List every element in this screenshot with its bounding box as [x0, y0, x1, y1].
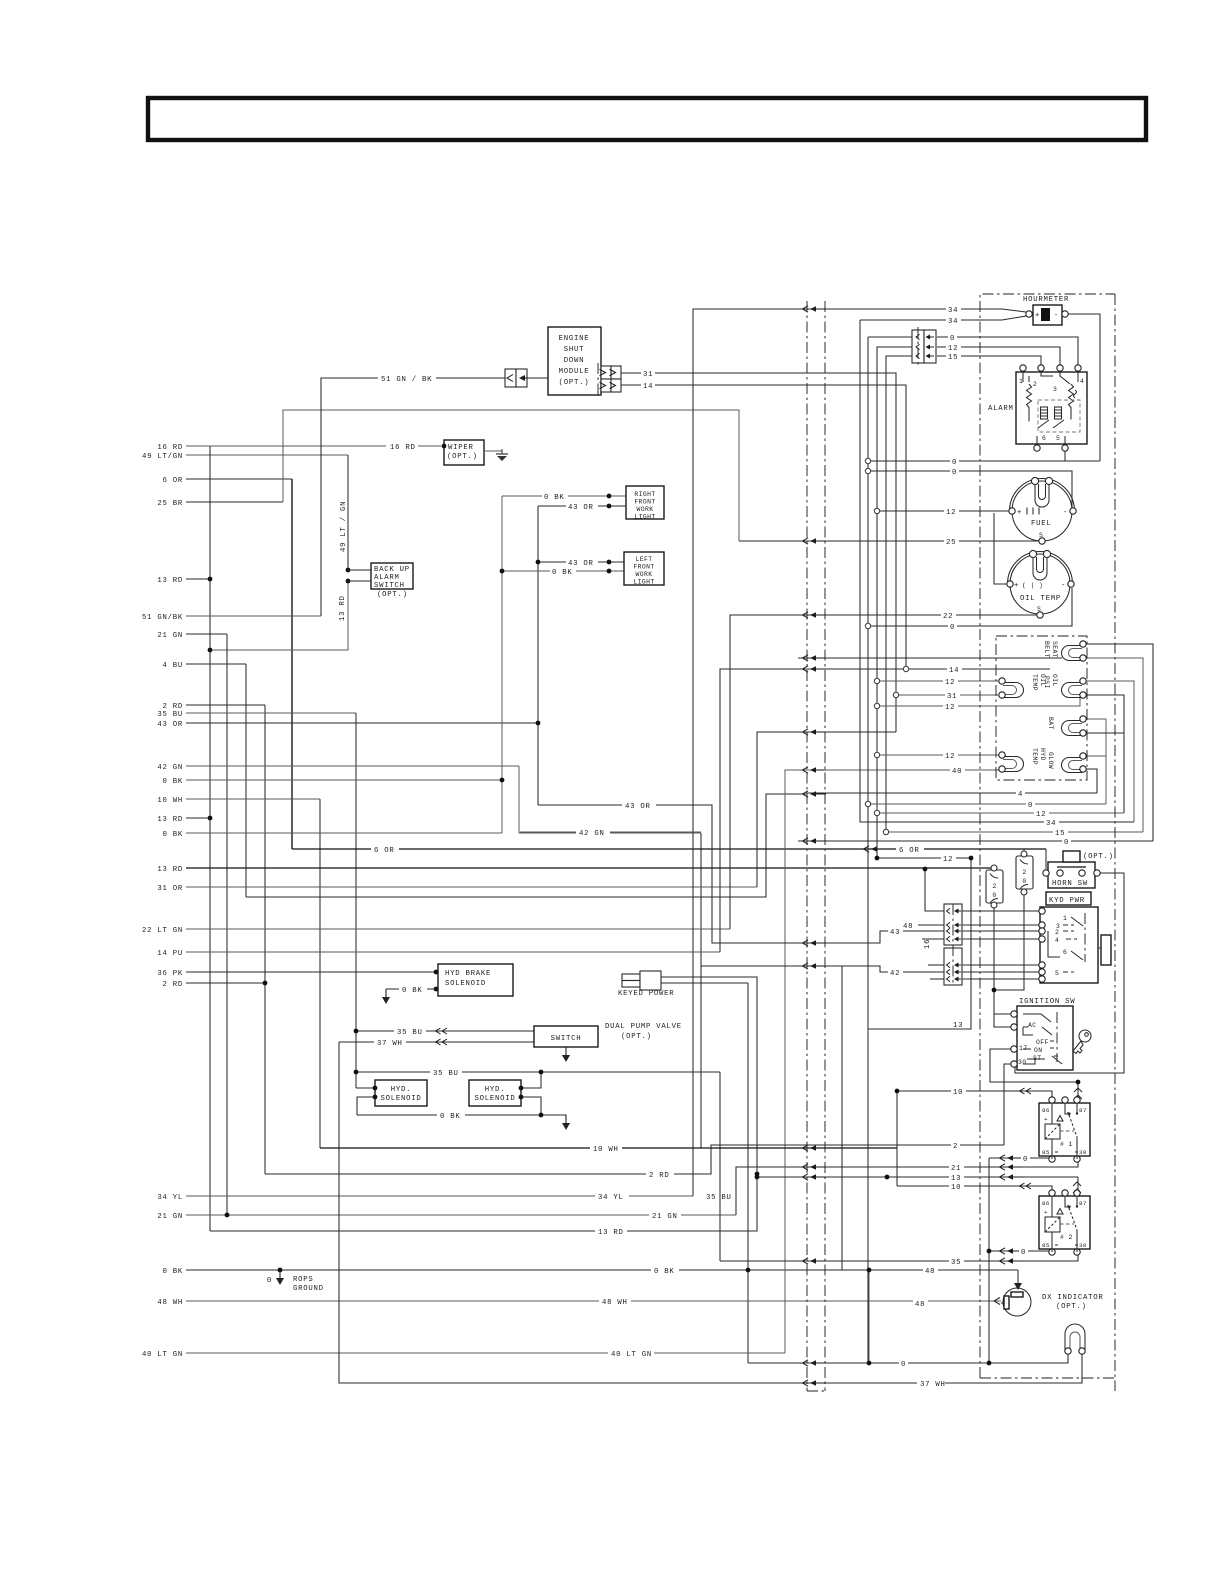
ignition switch — [1017, 1006, 1073, 1070]
svg-text:22: 22 — [943, 613, 953, 621]
wire 35 BU solenoid row — [356, 1030, 534, 1032]
svg-text:30: 30 — [1079, 1149, 1087, 1156]
wire 35 BU lower row — [356, 1071, 720, 1073]
svg-text:0 BK: 0 BK — [440, 1113, 461, 1121]
svg-text:42 GN: 42 GN — [579, 830, 605, 838]
svg-text:0: 0 — [267, 1277, 272, 1285]
hyd brake solenoid box — [438, 964, 513, 996]
wire 0 BK row 2 — [186, 832, 502, 834]
bat lamp — [1062, 721, 1083, 736]
svg-text:31: 31 — [643, 371, 653, 379]
open junction circles — [865, 458, 870, 463]
standalone arrows relay column — [1000, 1155, 1024, 1161]
svg-text:40 LT GN: 40 LT GN — [142, 1351, 183, 1359]
svg-text:0 BK: 0 BK — [162, 831, 183, 839]
svg-text:(OPT.): (OPT.) — [1056, 1303, 1087, 1311]
wire 13 relay row drop — [1077, 1177, 1079, 1193]
svg-text:34 YL: 34 YL — [157, 1194, 183, 1202]
svg-text:DOWN: DOWN — [564, 357, 585, 365]
svg-text:4 BU: 4 BU — [162, 662, 183, 670]
wire 42 jog right of bus — [830, 966, 944, 972]
svg-text:2: 2 — [1055, 929, 1059, 936]
svg-text:BAT: BAT — [1047, 717, 1054, 730]
seat belt lamp — [1062, 646, 1083, 661]
svg-text:48: 48 — [925, 1268, 935, 1276]
svg-text:0 BK: 0 BK — [162, 1268, 183, 1276]
svg-text:FRONT: FRONT — [633, 564, 654, 571]
svg-text:14: 14 — [643, 383, 653, 391]
fuel gauge — [1012, 481, 1072, 541]
wire hourmeter right to 0 — [1067, 314, 1100, 461]
svg-text:2 RD: 2 RD — [649, 1172, 670, 1180]
svg-text:ENGINE: ENGINE — [559, 335, 590, 343]
wire 34 YL center vertical — [693, 309, 830, 1196]
wire alarm pin5 drop — [1064, 447, 1066, 461]
wire 34 YL row — [186, 1195, 693, 1197]
module connector left — [505, 369, 516, 387]
svg-text:SOLENOID: SOLENOID — [445, 980, 486, 988]
wire 0 BK right light row — [502, 495, 626, 497]
wire 15 row to alarm pin2 — [937, 356, 1041, 368]
svg-text:30: 30 — [1079, 1242, 1087, 1249]
wire 22 riser — [730, 615, 1038, 929]
svg-text:KYD PWR: KYD PWR — [1049, 897, 1085, 905]
svg-text:35 BU: 35 BU — [706, 1194, 732, 1202]
svg-text:2 RD: 2 RD — [162, 981, 183, 989]
oil temp gauge — [1010, 554, 1070, 614]
svg-text:35: 35 — [951, 1259, 961, 1267]
right front work light box — [626, 486, 664, 519]
svg-text:+: + — [1017, 509, 1022, 517]
wire 0 relay1 row — [989, 1156, 1052, 1158]
wire 42 GN vertical center — [700, 833, 702, 1148]
svg-text:HYD.: HYD. — [485, 1086, 506, 1094]
svg-text:15: 15 — [948, 354, 958, 362]
svg-text:WORK: WORK — [636, 571, 653, 578]
svg-text:6: 6 — [1063, 949, 1067, 956]
svg-text:3: 3 — [1053, 386, 1057, 393]
wire 34 hourmeter rows — [830, 309, 1026, 312]
fuse 1 — [986, 870, 1003, 903]
svg-text:SWITCH: SWITCH — [374, 582, 405, 590]
horn switch — [1048, 862, 1095, 888]
wire 0 relay2 row — [989, 1250, 1052, 1252]
svg-text:WORK: WORK — [637, 506, 654, 513]
svg-text:13 RD: 13 RD — [157, 577, 183, 585]
svg-text:(OPT.): (OPT.) — [621, 1033, 652, 1041]
wire 0 stub row right — [798, 840, 1153, 842]
wire 0 row right — [868, 803, 1106, 805]
wire 43 OR mid row — [538, 805, 830, 943]
svg-text:ALARM: ALARM — [374, 574, 400, 582]
wire 21 jog — [736, 1167, 806, 1215]
wire 13 RD row upper — [186, 578, 210, 580]
svg-text:TEMP: TEMP — [1031, 674, 1038, 691]
svg-text:87: 87 — [1079, 1200, 1087, 1207]
wire 0 vertical right — [988, 1158, 990, 1363]
svg-text:36 PK: 36 PK — [157, 970, 183, 978]
hourmeter — [1033, 305, 1062, 325]
wire 6 OR long row — [292, 848, 1046, 850]
wire 48 WH row — [186, 1300, 1001, 1302]
left front work light box — [624, 552, 664, 585]
svg-text:(OPT.): (OPT.) — [377, 591, 408, 599]
svg-text:14 PU: 14 PU — [157, 950, 183, 958]
svg-text:12: 12 — [945, 704, 955, 712]
wire 42 row to bus — [701, 965, 830, 967]
wire solenoid links — [521, 1072, 541, 1088]
svg-text:31 OR: 31 OR — [157, 885, 183, 893]
wire 14 PU row — [186, 951, 720, 953]
dash frame right panel — [980, 294, 1115, 1378]
key switch connector — [944, 904, 962, 945]
wire 2 RD trunk — [264, 705, 266, 1174]
wire 0 bottom row — [748, 1351, 1068, 1363]
wire 42 GN mid row — [520, 831, 701, 833]
svg-text:12: 12 — [945, 679, 955, 687]
6 OR arrows right of bus — [864, 846, 888, 852]
wire 10 vertical — [896, 1091, 898, 1186]
wire ign 1014 — [994, 1013, 1013, 1015]
wire 13 row mid — [868, 858, 971, 1029]
svg-text:DX INDICATOR: DX INDICATOR — [1042, 1294, 1104, 1302]
wire 2 RD bottom row — [265, 1145, 1004, 1174]
svg-text:+: + — [1044, 1209, 1048, 1216]
glow wrap wires — [1083, 755, 1106, 757]
wire 2 RD row 2 — [186, 982, 265, 984]
wire 0 BK trunk — [501, 496, 503, 833]
wire 31 lamp row — [896, 694, 1002, 696]
svg-text:14: 14 — [949, 667, 959, 675]
wire 10 relay1 row — [897, 1091, 1052, 1100]
wire 12 row 3 — [877, 697, 1080, 706]
svg-text:HYD: HYD — [1039, 748, 1046, 761]
svg-text:FUEL: FUEL — [1031, 520, 1052, 528]
relay 2 — [1039, 1196, 1090, 1249]
keyed power connector — [622, 974, 640, 981]
wire 35 BU drop — [719, 1072, 721, 1261]
svg-text:HORN SW: HORN SW — [1052, 880, 1088, 888]
alarm internals — [1027, 384, 1032, 422]
svg-text:LIGHT: LIGHT — [634, 514, 655, 521]
svg-text:6 OR: 6 OR — [899, 847, 920, 855]
svg-text:0: 0 — [1023, 1156, 1028, 1164]
svg-text:51 GN / BK: 51 GN / BK — [381, 376, 432, 384]
svg-text:ON: ON — [1034, 1047, 1042, 1054]
svg-text:0 BK: 0 BK — [544, 494, 565, 502]
svg-text:OIL: OIL — [1051, 674, 1058, 687]
svg-text:12: 12 — [945, 753, 955, 761]
svg-text:LEFT: LEFT — [636, 556, 653, 563]
wire fuse2 stub — [1023, 849, 1025, 854]
oil psi lamp — [1062, 683, 1083, 698]
wire 37 WH bottom row — [339, 1042, 1082, 1383]
wire 10 relay2 row — [897, 1186, 1052, 1193]
wire 13 RD row 2 — [186, 817, 210, 819]
svg-text:48 WH: 48 WH — [157, 1299, 183, 1307]
svg-text:21 GN: 21 GN — [157, 632, 183, 640]
wire 48 dx drop — [1017, 1270, 1019, 1287]
svg-text:12: 12 — [943, 856, 953, 864]
svg-text:13: 13 — [953, 1022, 963, 1030]
connector bus dashed pair — [806, 301, 808, 1391]
wire 0 BK row 3 — [186, 1269, 1018, 1271]
wire 43 OR right light row — [538, 505, 626, 507]
svg-text:10 WH: 10 WH — [157, 797, 183, 805]
wire 35 BU trunk — [355, 713, 357, 1088]
svg-text:+: + — [1035, 312, 1040, 320]
svg-text:48 WH: 48 WH — [602, 1299, 628, 1307]
hyd temp lamp — [1003, 757, 1024, 772]
svg-text:34: 34 — [948, 318, 958, 326]
svg-text:S: S — [1039, 532, 1043, 539]
wire 42 GN riser — [519, 766, 701, 833]
svg-text:10: 10 — [953, 1089, 963, 1097]
wire 21 GN row 2 — [186, 1214, 736, 1216]
svg-text:+: + — [1044, 1116, 1048, 1123]
svg-text:42: 42 — [890, 970, 900, 978]
svg-text:( | ): ( | ) — [1022, 582, 1043, 589]
connector 0/12/15 top — [912, 330, 924, 363]
wire 49 LT/GN row — [186, 454, 348, 456]
wire 12 fuse row — [877, 857, 971, 859]
wire 25 riser — [283, 410, 739, 541]
svg-text:87: 87 — [1079, 1107, 1087, 1114]
wire 43 jog right of bus — [830, 931, 944, 943]
fuse 2 — [1016, 856, 1033, 889]
module connector right — [601, 366, 611, 379]
switch row chevrons — [436, 1028, 448, 1034]
svg-text:25 BR: 25 BR — [157, 500, 183, 508]
svg-text:37 WH: 37 WH — [377, 1040, 403, 1048]
wire 6 OR trunk vertical — [291, 479, 293, 849]
svg-text:2: 2 — [1033, 381, 1037, 388]
wire 31 drop — [654, 373, 896, 732]
svg-text:+: + — [1014, 582, 1019, 590]
bat wrap wires — [1083, 719, 1106, 804]
svg-text:40: 40 — [952, 768, 962, 776]
svg-text:4: 4 — [1018, 791, 1023, 799]
svg-text:MODULE: MODULE — [559, 368, 590, 376]
wire 31 OR row — [186, 886, 757, 888]
svg-text:10 WH: 10 WH — [593, 1146, 619, 1154]
svg-text:25: 25 — [946, 539, 956, 547]
svg-text:34: 34 — [948, 307, 958, 315]
svg-text:0: 0 — [952, 469, 957, 477]
wire 35 relay2 — [830, 1254, 1078, 1261]
wire 10 WH long row — [320, 1147, 897, 1149]
svg-text:FRONT: FRONT — [634, 499, 655, 506]
wire 13 RD link to backup switch — [210, 581, 348, 650]
svg-text:37 WH: 37 WH — [920, 1381, 946, 1389]
wire horn right — [1015, 873, 1124, 1073]
wire 35 BU row — [186, 712, 356, 714]
svg-text:43 OR: 43 OR — [568, 504, 594, 512]
svg-text:6: 6 — [1042, 435, 1046, 442]
wire 0 BK drop — [747, 983, 749, 1363]
wire 0 row hourmeter — [868, 460, 1100, 462]
junction dots — [208, 577, 213, 582]
wire 43 OR left light row — [538, 561, 624, 563]
wire 12 hyd temp — [877, 754, 1002, 756]
svg-text:51 GN/BK: 51 GN/BK — [142, 614, 183, 622]
wire ign st arrow drop — [1077, 1082, 1079, 1100]
wire 14 riser — [720, 669, 1050, 952]
svg-text:85: 85 — [1042, 1149, 1050, 1156]
wire 42 GN row — [186, 765, 519, 767]
bottom lamp — [1065, 1324, 1085, 1351]
svg-text:34: 34 — [1046, 820, 1056, 828]
svg-text:-: - — [1054, 312, 1059, 320]
svg-text:86: 86 — [1042, 1200, 1050, 1207]
svg-text:35 BU: 35 BU — [433, 1070, 459, 1078]
wire 0 BK left light row — [502, 570, 624, 572]
svg-text:# 1: # 1 — [1060, 1141, 1073, 1148]
svg-text:21 GN: 21 GN — [652, 1213, 678, 1221]
wire 15 connector drop — [886, 356, 913, 832]
svg-text:16 RD: 16 RD — [390, 444, 416, 452]
svg-text:21 GN: 21 GN — [157, 1213, 183, 1221]
svg-text:SHUT: SHUT — [564, 346, 585, 354]
wire 48 dx left — [1001, 1302, 1006, 1304]
instrument cluster dashed box — [996, 636, 1087, 780]
svg-text:2: 2 — [953, 1143, 958, 1151]
wire 42 drop vertical — [841, 966, 843, 1270]
svg-text:(OPT.): (OPT.) — [559, 379, 590, 387]
key switch box — [1040, 907, 1098, 983]
wire 51 GN/BK riser — [321, 378, 505, 616]
svg-text:12: 12 — [946, 509, 956, 517]
wire 21 GN trunk — [226, 634, 228, 1215]
wire 0 BK row — [186, 779, 502, 781]
svg-text:HYD BRAKE: HYD BRAKE — [445, 970, 491, 978]
wire 12 gauge link — [994, 513, 1007, 584]
wire 15 row right — [886, 831, 1143, 833]
svg-text:21: 21 — [951, 1165, 961, 1173]
wire 0 row oil temp — [868, 588, 1072, 626]
title box — [148, 98, 1146, 140]
svg-text:40 LT GN: 40 LT GN — [611, 1351, 652, 1359]
svg-text:0 BK: 0 BK — [402, 987, 423, 995]
svg-text:13 RD: 13 RD — [157, 816, 183, 824]
wire 35 row to bus — [720, 1260, 830, 1262]
svg-text:16: 16 — [924, 939, 932, 949]
svg-text:S: S — [1037, 606, 1041, 613]
wire 51 GN/BK row — [186, 615, 321, 617]
svg-text:0 BK: 0 BK — [654, 1268, 675, 1276]
svg-text:BACK UP: BACK UP — [374, 566, 410, 574]
hyd solenoid box 1 — [375, 1080, 427, 1106]
wire 0 row to alarm pin4 — [937, 337, 1078, 368]
svg-text:48: 48 — [903, 923, 913, 931]
svg-text:BELT: BELT — [1043, 641, 1050, 658]
wire 12 row fuel — [877, 510, 1009, 512]
svg-text:4: 4 — [1080, 378, 1084, 385]
relay row chevrons — [1020, 1088, 1032, 1094]
svg-text:2 RD: 2 RD — [162, 703, 183, 711]
dx indicator — [1003, 1288, 1031, 1316]
svg-text:SOLENOID: SOLENOID — [380, 1095, 421, 1103]
wire ign 30 — [1004, 1064, 1013, 1145]
svg-text:HOURMETER: HOURMETER — [1023, 296, 1069, 304]
wire 22 row right — [830, 614, 1038, 616]
svg-text:ST: ST — [1033, 1055, 1041, 1062]
wire 4 BU trunk — [245, 664, 247, 897]
svg-text:DUAL PUMP VALVE: DUAL PUMP VALVE — [605, 1023, 682, 1031]
svg-text:2: 2 — [1022, 869, 1026, 876]
svg-text:ROPS: ROPS — [293, 1276, 314, 1284]
wire keyed power pair — [661, 982, 748, 984]
svg-text:17: 17 — [1019, 1045, 1027, 1052]
wire 21 relay row — [806, 1159, 1078, 1167]
svg-text:0: 0 — [1028, 802, 1033, 810]
svg-text:31: 31 — [947, 693, 957, 701]
svg-text:0: 0 — [901, 1361, 906, 1369]
wire 31 label row short — [621, 372, 641, 374]
wire 10 WH row — [186, 798, 320, 800]
svg-text:22 LT GN: 22 LT GN — [142, 927, 183, 935]
right column labels — [888, 304, 1071, 1309]
svg-text:43: 43 — [890, 929, 900, 937]
glow lamp — [1062, 758, 1083, 773]
svg-text:34 YL: 34 YL — [598, 1194, 624, 1202]
wire 12 row right — [877, 812, 1124, 814]
wire 43 OR trunk — [537, 506, 539, 805]
svg-text:5: 5 — [1056, 435, 1060, 442]
svg-text:OIL TEMP: OIL TEMP — [1020, 595, 1061, 603]
engine shut down module box — [548, 327, 601, 395]
wire 4 link row — [246, 794, 806, 897]
svg-text:# 2: # 2 — [1060, 1234, 1073, 1241]
wire 21 GN row — [186, 633, 227, 635]
wire 16 drop — [925, 869, 944, 911]
wire 16 RD / 13 RD trunk vertical — [209, 446, 211, 1231]
svg-text:(OPT.): (OPT.) — [447, 453, 478, 461]
wire 51 GN/BK to module — [527, 377, 548, 379]
wire 0 connector drop — [868, 336, 913, 338]
wire 12 row to alarm pin3 — [937, 347, 1060, 368]
svg-text:43 OR: 43 OR — [157, 721, 183, 729]
svg-text:48: 48 — [915, 1301, 925, 1309]
svg-text:16 RD: 16 RD — [157, 444, 183, 452]
svg-text:43 OR: 43 OR — [625, 803, 651, 811]
connector stubs — [922, 938, 944, 940]
svg-text:5: 5 — [1055, 970, 1059, 977]
alarm box — [1016, 372, 1087, 444]
wire 40 LT GN row — [186, 1352, 785, 1354]
svg-text:42 GN: 42 GN — [157, 764, 183, 772]
wire 40 riser — [785, 770, 1002, 1353]
svg-text:49 LT / GN: 49 LT / GN — [340, 501, 348, 552]
wire 0 BK solenoid ground row — [357, 1115, 566, 1120]
wire 4 BU row — [186, 663, 246, 665]
svg-text:-: - — [1061, 582, 1066, 590]
wire 14 drop — [654, 385, 906, 669]
ROPS ground — [276, 1270, 284, 1285]
svg-text:0: 0 — [1064, 839, 1069, 847]
svg-text:0: 0 — [950, 335, 955, 343]
svg-text:6 OR: 6 OR — [374, 847, 395, 855]
svg-text:13 RD: 13 RD — [157, 866, 183, 874]
svg-text:0: 0 — [992, 892, 996, 899]
svg-text:2: 2 — [992, 883, 996, 890]
wire 25 row — [739, 540, 1040, 542]
wire 25 BR row — [186, 501, 283, 503]
svg-text:0: 0 — [1021, 1249, 1026, 1257]
svg-text:KEYED POWER: KEYED POWER — [618, 990, 674, 998]
svg-text:TEMP: TEMP — [1031, 748, 1038, 765]
svg-text:10: 10 — [951, 1184, 961, 1192]
